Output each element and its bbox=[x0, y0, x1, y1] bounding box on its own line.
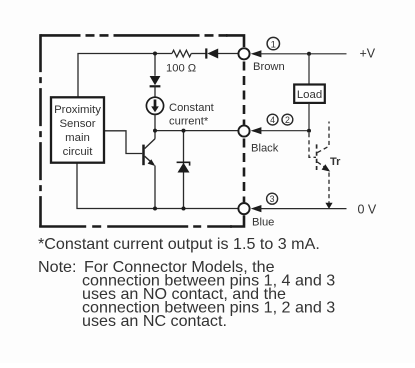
transistor Q1 collector bbox=[145, 139, 155, 149]
constant current source CC bbox=[146, 97, 163, 114]
wire: emitter down to 0V rail bbox=[154, 166, 156, 209]
svg-text:uses an NC contact.: uses an NC contact. bbox=[82, 312, 227, 330]
junction dot at +V rail branch bbox=[153, 52, 157, 56]
Load box bbox=[294, 85, 325, 103]
junction dot zener bottom bbox=[182, 207, 186, 211]
diode D1 (series, cathode left) bbox=[206, 48, 218, 58]
junction dot emitter at 0V rail bbox=[153, 207, 157, 211]
zener diode ZD symbol bbox=[177, 162, 190, 172]
sensor boundary: dashed segment Brown to Black bbox=[243, 62, 246, 125]
svg-text:Sensor: Sensor bbox=[59, 118, 95, 130]
svg-text:3: 3 bbox=[270, 194, 275, 204]
transistor Q1 emitter with arrow bbox=[145, 156, 156, 166]
wire: diode D2 to constant current source bbox=[154, 86, 156, 97]
svg-text:Load: Load bbox=[297, 89, 322, 101]
svg-text:main: main bbox=[65, 132, 90, 144]
Tr emitter lead down to 0V (dashed) bbox=[328, 173, 330, 206]
Tr base bar (dashed) bbox=[316, 144, 318, 170]
svg-text:Brown: Brown bbox=[253, 61, 285, 73]
wire: 0V line bbox=[258, 208, 347, 210]
circled 4 bbox=[267, 114, 278, 125]
sensor boundary dashed box: top edge bbox=[41, 34, 229, 37]
junction dot zener top bbox=[182, 129, 186, 133]
diode D2 (vertical, pointing down) bbox=[150, 76, 161, 86]
svg-text:current*: current* bbox=[169, 116, 209, 128]
svg-text:Proximity: Proximity bbox=[54, 104, 101, 116]
sensor boundary: bottom-right solid corner below Blue terminal bbox=[230, 215, 244, 226]
wire: CC source down through collector junction bbox=[154, 114, 156, 138]
wire: resistor to diode bbox=[191, 53, 206, 55]
terminal Blue (pin 3) bbox=[238, 203, 249, 214]
svg-text:1: 1 bbox=[271, 39, 276, 50]
wire: +V line bbox=[258, 53, 347, 55]
svg-text:*Constant current output is 1.: *Constant current output is 1.5 to 3 mA. bbox=[38, 235, 320, 253]
wire: sensor box bottom down and 0V rail to Blue terminal bbox=[77, 163, 238, 209]
wire: Load to Black junction bbox=[308, 103, 310, 131]
svg-text:2: 2 bbox=[285, 115, 290, 125]
svg-text:Tr: Tr bbox=[330, 156, 341, 168]
circled 1 bbox=[267, 37, 279, 50]
svg-text:Blue: Blue bbox=[252, 217, 274, 229]
wire: branch from +V rail down to diode D2 bbox=[154, 54, 156, 76]
sensor boundary: top-right solid corner into Brown terminal bbox=[226, 35, 244, 47]
sensor boundary: dashed segment Black to Blue bbox=[243, 139, 246, 203]
external transistor Tr: dashed base feed from Black node bbox=[309, 133, 316, 157]
arrow into Black terminal bbox=[251, 127, 262, 134]
junction dot at Load top on +V bbox=[307, 52, 311, 56]
arrow into Blue terminal bbox=[251, 205, 262, 212]
svg-text:+V: +V bbox=[360, 47, 376, 61]
arrow into Brown terminal bbox=[251, 50, 262, 57]
svg-text:4: 4 bbox=[270, 115, 275, 125]
sensor boundary dashed box: bottom edge bbox=[39, 225, 232, 228]
transistor Q1 base bar bbox=[142, 145, 145, 166]
sensor boundary dashed box: left edge bbox=[39, 34, 42, 227]
junction dot Black/Load bbox=[307, 129, 311, 133]
wire: sensor box right edge to transistor base bbox=[104, 131, 142, 154]
svg-text:circuit: circuit bbox=[63, 146, 94, 158]
arrow at 0V junction of Tr emitter bbox=[325, 203, 332, 209]
terminal Brown (pin 1) bbox=[238, 48, 249, 59]
svg-text:Black: Black bbox=[251, 143, 279, 155]
svg-text:0 V: 0 V bbox=[358, 202, 377, 216]
Tr emitter (dashed with solid arrow) bbox=[317, 162, 330, 172]
svg-text:Constant: Constant bbox=[169, 102, 215, 114]
wire: +V to Load bbox=[308, 54, 310, 85]
wire: output rail to Black terminal bbox=[155, 130, 238, 132]
circled 2 bbox=[282, 114, 293, 125]
zener diode ZD vertical wire bbox=[183, 131, 185, 209]
resistor R 100 ohm bbox=[172, 50, 191, 57]
wire: Black to Load junction bbox=[258, 130, 309, 132]
junction dot collector/output rail bbox=[153, 129, 157, 133]
circled 3 bbox=[267, 193, 278, 204]
proximity sensor main circuit box bbox=[51, 97, 104, 162]
svg-text:Note:: Note: bbox=[38, 258, 76, 276]
svg-text:100 Ω: 100 Ω bbox=[166, 62, 196, 74]
wire: diode to Brown terminal bbox=[218, 53, 238, 55]
terminal Black (pins 4,2) bbox=[238, 125, 249, 136]
Tr collector (dashed) bbox=[317, 122, 329, 153]
wire: sensor box top to +V rail bbox=[78, 54, 172, 98]
